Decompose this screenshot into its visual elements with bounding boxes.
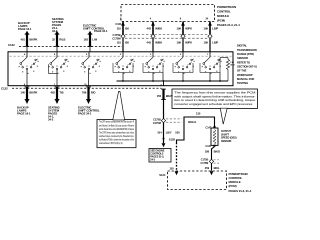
see engine controls box <box>149 149 171 163</box>
svg-text:C147: C147 <box>206 145 212 148</box>
svg-text:163: 163 <box>84 38 89 42</box>
contact strip pole x=123 <box>112 63 114 73</box>
DTR sensor box outline <box>8 52 233 86</box>
PCM module box (top, dashed) <box>121 5 215 22</box>
arrow up into PCM wire 2 <box>151 22 155 26</box>
connector node C175 wire 3 <box>181 34 185 38</box>
wire pole drop 2 jog <box>48 64 50 73</box>
wire pole drop 1 <box>26 70 28 86</box>
svg-text:POWERTRAIN: POWERTRAIN <box>217 5 236 9</box>
wire PCM 2 vertical <box>152 22 154 37</box>
bus junction x=123 <box>122 80 124 82</box>
note box 1 outline <box>97 120 136 148</box>
connector bar bottom 1 with down arrow <box>26 87 28 100</box>
svg-text:trol Module (PCM) to determine: trol Module (PCM) to determine the posit… <box>99 138 135 141</box>
arrow up into PCM wire 4 <box>208 22 212 26</box>
svg-text:(PCM): (PCM) <box>217 19 225 23</box>
DTR switch pole 4 (x=27) <box>26 52 28 57</box>
arrow down into PCM wire 186 <box>210 171 214 175</box>
svg-text:150: 150 <box>169 167 174 171</box>
svg-text:TRANSMISSION: TRANSMISSION <box>237 48 257 52</box>
wire drop pole7 to bus <box>219 73 221 82</box>
connector C147 bottom pin <box>213 145 215 147</box>
svg-text:S134: S134 <box>159 173 166 177</box>
note box 2 outline <box>172 89 258 109</box>
OSS sensor box <box>211 128 218 145</box>
svg-text:BK/W: BK/W <box>166 94 173 98</box>
svg-text:BK/O: BK/O <box>214 150 220 154</box>
DTR switch pole 2 (x=183) <box>182 52 184 57</box>
svg-text:491: 491 <box>21 38 26 42</box>
wire drop pole4 to bus <box>122 73 124 82</box>
svg-text:150: 150 <box>157 94 162 98</box>
connector C175 dashed line lower <box>125 37 213 39</box>
svg-text:186: 186 <box>205 150 210 154</box>
resistor wire to bus <box>227 70 229 82</box>
contact strip pole x=153 <box>142 63 144 73</box>
svg-text:BK: BK <box>125 26 129 30</box>
wire bus drop pole7b <box>209 73 211 82</box>
svg-text:463: 463 <box>51 90 56 94</box>
PCM module box (bottom, dashed) <box>168 171 227 190</box>
wire from bar 2 into DTR box <box>56 47 58 52</box>
svg-text:443: 443 <box>147 26 152 30</box>
svg-text:SECTION 307-01: SECTION 307-01 <box>237 65 258 69</box>
svg-text:and Neutral , the Back-Up Lamp: and Neutral , the Back-Up Lamp circuit i… <box>99 124 135 127</box>
wire 130 OSS top <box>177 117 215 143</box>
svg-text:104: 104 <box>157 130 162 134</box>
connector bar top 3 with up arrow <box>88 31 92 35</box>
svg-text:BK: BK <box>125 41 129 45</box>
connector C175 dashes (bottom left pair) <box>166 118 182 120</box>
svg-text:and the Neutral Sense circuit: and the Neutral Sense circuit (4R100&4R7… <box>99 128 134 131</box>
wire from bar 3 into DTR box <box>89 47 91 52</box>
svg-text:W/PK: W/PK <box>185 41 192 45</box>
svg-text:tion is used in determining sh: tion is used in determining shift schedu… <box>174 99 256 102</box>
svg-text:switches that are monitored by: switches that are monitored by the Power… <box>99 135 134 138</box>
svg-text:REFER TO: REFER TO <box>237 60 250 64</box>
connector bar top 2 with up arrow <box>55 31 59 35</box>
connector bar bottom 2 with down arrow <box>56 87 58 100</box>
svg-text:PAGES 21-3, 21-4: PAGES 21-3, 21-4 <box>229 189 252 193</box>
wire pole drop 3 <box>88 70 90 86</box>
svg-text:34-2: 34-2 <box>48 117 54 121</box>
DTR internal dashed guide line <box>10 55 232 57</box>
wire bus drop pole5b <box>152 73 154 82</box>
svg-text:110: 110 <box>117 26 122 30</box>
DTR common bus wire <box>117 80 229 82</box>
svg-text:The DTR sensor complements the: The DTR sensor complements the Start cir… <box>99 121 134 124</box>
svg-text:CONTROL: CONTROL <box>217 10 231 14</box>
svg-text:C175B: C175B <box>113 33 121 37</box>
connector bar bottom 3 with down arrow <box>87 87 89 100</box>
svg-text:manual lever (P,R,N,(D),2,1).: manual lever (P,R,N,(D),2,1). <box>99 142 123 145</box>
svg-text:C132: C132 <box>1 87 8 91</box>
connector bar C167 (below DTR) <box>162 89 164 100</box>
svg-text:BK/PK: BK/PK <box>29 90 37 94</box>
svg-text:PAGES 21-3, 21-4: PAGES 21-3, 21-4 <box>217 23 240 27</box>
connector node C175 on wire 186 <box>209 159 213 163</box>
svg-text:W/PK: W/PK <box>185 26 192 30</box>
svg-text:RANGE (DTR): RANGE (DTR) <box>237 52 254 56</box>
DTR switch pole 5 (x=123) <box>122 52 124 57</box>
svg-text:TESTING: TESTING <box>237 81 248 85</box>
wire 186 OSS bottom <box>212 147 215 171</box>
svg-text:OUTPUT: OUTPUT <box>221 129 232 133</box>
DTR switch pole 8 (x=57) <box>56 52 58 57</box>
connector node C175 wire 1 <box>121 34 125 38</box>
svg-text:T/B: T/B <box>59 90 63 94</box>
wire drop pole6 to bus <box>182 73 184 82</box>
svg-text:110: 110 <box>117 41 122 45</box>
OSS sensor coil symbol <box>213 130 216 144</box>
svg-text:MODULE: MODULE <box>217 14 229 18</box>
svg-text:LB/Y: LB/Y <box>166 130 172 134</box>
svg-text:L/W: L/W <box>92 38 97 42</box>
wire PCM 1 vertical <box>122 22 124 37</box>
svg-text:MANUAL FOR: MANUAL FOR <box>237 77 254 81</box>
connector node C175 on wire 104 <box>161 118 165 122</box>
connector node C175 wire 4 <box>208 34 212 38</box>
svg-text:SHAFT: SHAFT <box>221 132 230 136</box>
svg-text:W/BK: W/BK <box>155 41 162 45</box>
svg-text:R/O: R/O <box>91 90 96 94</box>
svg-text:R/LB: R/LB <box>59 38 65 42</box>
note box 2 pointer spike <box>220 108 227 124</box>
svg-text:C132: C132 <box>8 43 15 47</box>
svg-text:PAGE 34-1: PAGE 34-1 <box>94 29 108 33</box>
wire PCM 3 vertical <box>182 22 184 37</box>
svg-text:C175M: C175M <box>153 121 161 125</box>
svg-text:W/BK: W/BK <box>155 26 162 30</box>
svg-text:BK/L: BK/L <box>214 166 220 170</box>
svg-text:459: 459 <box>205 166 210 170</box>
connector C132 dashed line (bottom) <box>12 87 162 89</box>
svg-text:130: 130 <box>196 112 201 116</box>
svg-text:DIGITAL: DIGITAL <box>237 44 247 48</box>
bus junction x=183 <box>182 80 184 82</box>
wire drop pole5 to bus <box>162 73 164 82</box>
bus junction x=153 <box>152 80 154 82</box>
svg-text:C175M: C175M <box>112 37 121 41</box>
wire 104 vertical <box>163 100 165 144</box>
svg-text:(PCM): (PCM) <box>229 184 237 188</box>
DTR switch pole 1 (x=210) <box>209 52 211 57</box>
wire shield dashed segment <box>176 143 178 171</box>
bus junction x=163.5 <box>163 80 165 82</box>
svg-text:WORKSHOP: WORKSHOP <box>237 73 253 77</box>
svg-text:LB/P: LB/P <box>212 26 218 30</box>
wire PCM 4 vertical <box>209 22 211 37</box>
svg-text:SENSOR: SENSOR <box>237 56 248 60</box>
svg-text:PAGE 34-1: PAGE 34-1 <box>78 111 92 115</box>
svg-text:C134: C134 <box>115 22 122 26</box>
DTR switch pole 6 (x=89) <box>88 52 90 57</box>
connector C175 dashed line upper <box>125 33 213 35</box>
svg-text:530: 530 <box>175 130 180 134</box>
svg-text:LB/P: LB/P <box>212 41 218 45</box>
svg-text:BK/LG: BK/LG <box>188 120 196 124</box>
svg-text:OHM: OHM <box>230 65 235 67</box>
svg-text:199: 199 <box>204 26 209 30</box>
contact strip pole x=210 <box>199 63 201 73</box>
svg-text:C175M: C175M <box>201 162 209 165</box>
svg-text:The DTR Sensor also operates/h: The DTR Sensor also operates/has a set o… <box>99 131 134 134</box>
bus junction x=220 <box>219 80 221 82</box>
svg-text:converter engagement schedule: converter engagement schedule and EPC pr… <box>174 103 253 106</box>
wire from bar 1 into DTR box <box>26 47 28 52</box>
svg-text:786: 786 <box>82 90 87 94</box>
connector C132 dashed line (top) <box>19 46 122 48</box>
svg-text:BK/PK: BK/PK <box>29 38 37 42</box>
svg-text:S138: S138 <box>169 137 176 141</box>
svg-text:140: 140 <box>21 90 26 94</box>
connector bar top 1 with up arrow <box>25 31 29 35</box>
connector C175 dash stubs (oss) <box>214 159 221 161</box>
svg-text:443: 443 <box>147 41 152 45</box>
connector node C175 wire 2 <box>151 34 155 38</box>
svg-text:SPEED (OSS): SPEED (OSS) <box>221 136 237 140</box>
resistor 1.3k link top <box>220 57 228 59</box>
DTR switch pole 3 (x=153) <box>152 52 154 57</box>
svg-text:199: 199 <box>177 26 182 30</box>
arrow up into PCM wire 1 <box>121 22 125 26</box>
connector C147 top pin <box>213 126 215 128</box>
svg-text:PAGE 16-1: PAGE 16-1 <box>17 111 31 115</box>
resistor R 1.3K OHMS <box>226 60 229 70</box>
svg-text:The frequency from this sensor: The frequency from this sensor supplies … <box>174 92 255 95</box>
svg-text:199: 199 <box>177 41 182 45</box>
bus junction x=210 <box>209 80 211 82</box>
svg-text:PAGE 16-1: PAGE 16-1 <box>18 27 32 31</box>
arrow down into PCM wire shield <box>175 171 179 175</box>
arrow down into engine controls <box>162 143 166 147</box>
svg-text:24-3: 24-3 <box>150 159 155 162</box>
svg-text:199: 199 <box>204 41 209 45</box>
svg-text:with output shaft speed inform: with output shaft speed information. Thi… <box>174 95 255 98</box>
DTR exit wire to C167 <box>163 81 165 86</box>
note box 1 pointer spike <box>113 91 125 120</box>
arrow up into PCM wire 3 <box>181 22 185 26</box>
contact strip pole x=183 <box>172 63 174 73</box>
svg-text:SENSOR: SENSOR <box>221 139 232 143</box>
splice S138 dot <box>163 138 165 140</box>
svg-text:OF THE: OF THE <box>237 69 247 73</box>
